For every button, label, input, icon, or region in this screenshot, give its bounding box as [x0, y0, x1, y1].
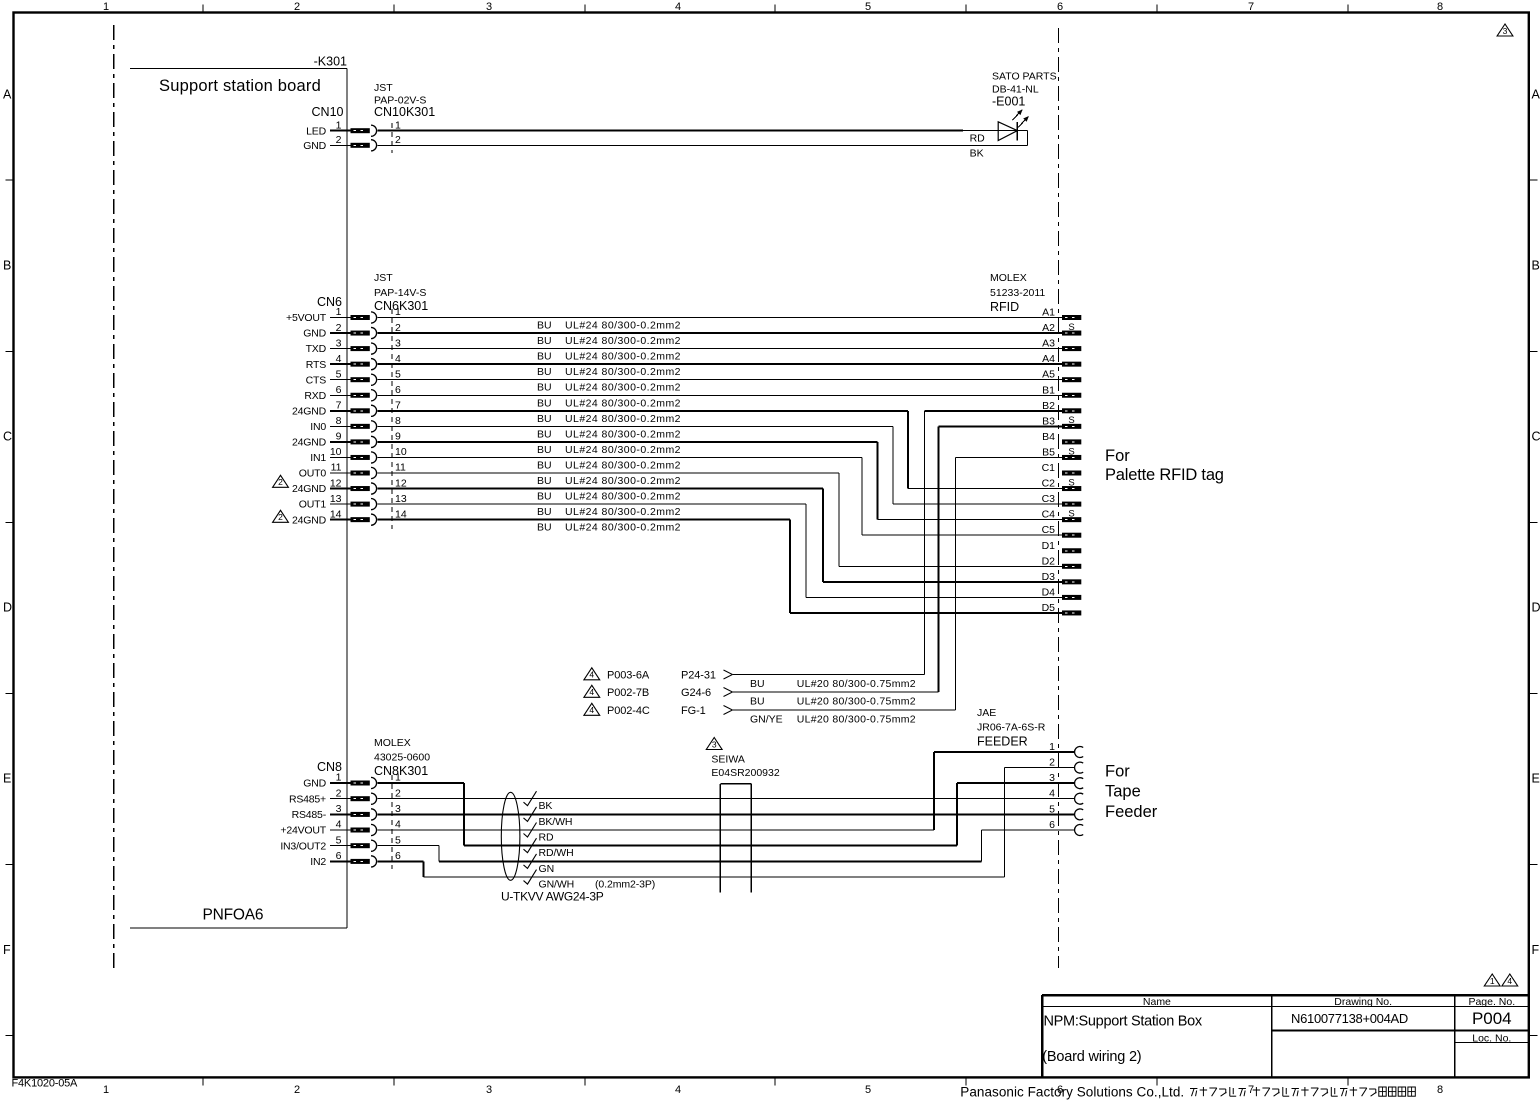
- svg-text:2: 2: [395, 322, 401, 334]
- svg-text:BU: BU: [750, 695, 765, 707]
- svg-text:3: 3: [395, 803, 401, 815]
- svg-text:A5: A5: [1042, 369, 1055, 381]
- svg-text:9: 9: [336, 431, 342, 443]
- svg-text:4: 4: [336, 819, 342, 831]
- svg-text:UL#24 80/300-0.2mm2: UL#24 80/300-0.2mm2: [565, 351, 681, 363]
- svg-text:OUT1: OUT1: [299, 499, 327, 511]
- svg-text:5: 5: [865, 1084, 871, 1096]
- svg-text:6: 6: [395, 850, 401, 862]
- svg-text:2: 2: [294, 1084, 300, 1096]
- svg-text:1: 1: [1490, 976, 1495, 986]
- svg-text:6: 6: [336, 850, 342, 862]
- svg-text:A3: A3: [1042, 338, 1055, 350]
- svg-text:2: 2: [278, 477, 283, 487]
- svg-text:RS485+: RS485+: [289, 793, 326, 805]
- svg-text:IN1: IN1: [310, 452, 326, 464]
- svg-text:A4: A4: [1042, 353, 1055, 365]
- svg-text:NPM:Support Station Box: NPM:Support Station Box: [1044, 1013, 1203, 1029]
- svg-text:BU: BU: [537, 413, 552, 425]
- svg-text:2: 2: [294, 1, 300, 13]
- svg-text:S: S: [1068, 477, 1074, 488]
- svg-text:MOLEX: MOLEX: [990, 272, 1027, 284]
- svg-text:UL#24 80/300-0.2mm2: UL#24 80/300-0.2mm2: [565, 366, 681, 378]
- svg-text:4: 4: [675, 1, 681, 13]
- svg-text:6: 6: [1057, 1, 1063, 13]
- svg-text:JST: JST: [374, 82, 393, 94]
- svg-text:F4K1020-05A: F4K1020-05A: [12, 1078, 79, 1090]
- svg-text:S: S: [1068, 415, 1074, 426]
- svg-text:CN10: CN10: [312, 105, 344, 119]
- svg-text:13: 13: [395, 493, 407, 505]
- svg-text:12: 12: [330, 477, 342, 489]
- svg-text:Page. No.: Page. No.: [1468, 996, 1515, 1008]
- svg-text:CN6K301: CN6K301: [374, 299, 428, 313]
- svg-text:G24-6: G24-6: [681, 687, 711, 699]
- svg-text:8: 8: [336, 415, 342, 427]
- svg-text:UL#24 80/300-0.2mm2: UL#24 80/300-0.2mm2: [565, 506, 681, 518]
- svg-text:GND: GND: [303, 328, 326, 340]
- svg-text:D3: D3: [1042, 571, 1056, 583]
- svg-text:B5: B5: [1042, 446, 1055, 458]
- svg-text:2: 2: [336, 787, 342, 799]
- svg-text:2: 2: [278, 512, 283, 522]
- svg-text:SATO PARTS: SATO PARTS: [992, 71, 1057, 83]
- svg-text:1: 1: [1049, 741, 1055, 753]
- svg-text:BU: BU: [537, 366, 552, 378]
- svg-text:BK: BK: [970, 148, 984, 160]
- svg-text:A: A: [1532, 88, 1540, 102]
- svg-text:Feeder: Feeder: [1105, 803, 1158, 821]
- svg-text:RS485-: RS485-: [292, 809, 327, 821]
- svg-text:C: C: [3, 430, 12, 444]
- svg-text:13: 13: [330, 493, 342, 505]
- svg-text:C5: C5: [1042, 524, 1056, 536]
- svg-text:+5VOUT: +5VOUT: [286, 312, 327, 324]
- svg-text:BU: BU: [537, 506, 552, 518]
- svg-text:GND: GND: [303, 778, 326, 790]
- svg-text:2: 2: [1049, 757, 1055, 769]
- svg-text:BU: BU: [537, 475, 552, 487]
- svg-text:D: D: [1532, 601, 1540, 615]
- svg-text:RD/WH: RD/WH: [539, 847, 574, 859]
- svg-text:7: 7: [395, 400, 401, 412]
- svg-text:8: 8: [1437, 1, 1443, 13]
- svg-text:P24-31: P24-31: [681, 670, 716, 682]
- svg-text:UL#24 80/300-0.2mm2: UL#24 80/300-0.2mm2: [565, 335, 681, 347]
- svg-text:BU: BU: [537, 459, 552, 471]
- svg-text:3: 3: [486, 1, 492, 13]
- svg-text:-E001: -E001: [992, 95, 1025, 109]
- svg-text:E: E: [3, 772, 11, 786]
- svg-text:5: 5: [865, 1, 871, 13]
- svg-text:P002-4C: P002-4C: [607, 705, 650, 717]
- svg-text:4: 4: [395, 353, 401, 365]
- svg-text:D5: D5: [1042, 602, 1056, 614]
- svg-text:2: 2: [336, 134, 342, 146]
- svg-text:4: 4: [589, 670, 594, 680]
- svg-text:JST: JST: [374, 272, 393, 284]
- svg-text:6: 6: [395, 384, 401, 396]
- svg-text:B1: B1: [1042, 384, 1055, 396]
- svg-text:4: 4: [395, 819, 401, 831]
- svg-text:RXD: RXD: [304, 390, 326, 402]
- svg-text:Panasonic Factory Solutions Co: Panasonic Factory Solutions Co.,Ltd.: [960, 1085, 1184, 1100]
- svg-text:14: 14: [330, 508, 342, 520]
- svg-text:JR06-7A-6S-R: JR06-7A-6S-R: [977, 722, 1046, 734]
- svg-text:7: 7: [1248, 1, 1254, 13]
- svg-text:For: For: [1105, 447, 1130, 465]
- svg-text:RD: RD: [970, 132, 986, 144]
- svg-text:UL#20 80/300-0.75mm2: UL#20 80/300-0.75mm2: [797, 678, 916, 690]
- svg-text:C3: C3: [1042, 493, 1056, 505]
- svg-text:D: D: [3, 601, 12, 615]
- svg-text:C1: C1: [1042, 462, 1056, 474]
- svg-text:BK: BK: [539, 800, 553, 812]
- svg-text:2: 2: [395, 134, 401, 146]
- svg-text:24GND: 24GND: [292, 483, 327, 495]
- svg-text:6: 6: [1049, 819, 1055, 831]
- svg-text:IN2: IN2: [310, 856, 326, 868]
- svg-text:11: 11: [331, 462, 342, 474]
- svg-text:2: 2: [395, 787, 401, 799]
- svg-text:B: B: [3, 259, 11, 273]
- svg-text:GND: GND: [303, 140, 326, 152]
- svg-text:C: C: [1532, 430, 1540, 444]
- svg-text:5: 5: [336, 834, 342, 846]
- svg-text:UL#24 80/300-0.2mm2: UL#24 80/300-0.2mm2: [565, 491, 681, 503]
- svg-text:10: 10: [395, 446, 407, 458]
- svg-text:3: 3: [1049, 772, 1055, 784]
- svg-text:24GND: 24GND: [292, 405, 327, 417]
- svg-text:P004: P004: [1472, 1009, 1512, 1028]
- svg-text:MOLEX: MOLEX: [374, 737, 411, 749]
- svg-text:RFID: RFID: [990, 300, 1019, 314]
- svg-text:5: 5: [336, 368, 342, 380]
- svg-text:UL#24 80/300-0.2mm2: UL#24 80/300-0.2mm2: [565, 397, 681, 409]
- svg-text:E04SR200932: E04SR200932: [711, 767, 779, 779]
- svg-text:7: 7: [336, 400, 342, 412]
- svg-text:UL#24 80/300-0.2mm2: UL#24 80/300-0.2mm2: [565, 382, 681, 394]
- svg-text:JAE: JAE: [977, 707, 996, 719]
- svg-text:BU: BU: [537, 335, 552, 347]
- svg-text:(Board wiring 2): (Board wiring 2): [1042, 1049, 1141, 1065]
- svg-text:1: 1: [336, 306, 342, 318]
- svg-text:U-TKVV AWG24-3P: U-TKVV AWG24-3P: [501, 890, 604, 904]
- svg-text:P002-7B: P002-7B: [607, 687, 649, 699]
- svg-text:UL#24 80/300-0.2mm2: UL#24 80/300-0.2mm2: [565, 413, 681, 425]
- svg-text:C2: C2: [1042, 478, 1056, 490]
- svg-text:Drawing No.: Drawing No.: [1334, 996, 1392, 1008]
- svg-text:PAP-14V-S: PAP-14V-S: [374, 287, 426, 299]
- svg-text:D4: D4: [1042, 586, 1056, 598]
- svg-text:BU: BU: [537, 522, 552, 534]
- svg-text:1: 1: [395, 306, 401, 318]
- svg-text:9: 9: [395, 431, 401, 443]
- svg-text:3: 3: [486, 1084, 492, 1096]
- svg-text:4: 4: [589, 687, 594, 697]
- svg-text:IN0: IN0: [310, 421, 326, 433]
- svg-text:UL#24 80/300-0.2mm2: UL#24 80/300-0.2mm2: [565, 320, 681, 332]
- svg-text:B4: B4: [1042, 431, 1055, 443]
- svg-text:GN: GN: [539, 863, 555, 875]
- svg-text:UL#24 80/300-0.2mm2: UL#24 80/300-0.2mm2: [565, 522, 681, 534]
- svg-text:S: S: [1068, 322, 1074, 333]
- svg-text:F: F: [1532, 943, 1540, 957]
- svg-text:RTS: RTS: [306, 359, 326, 371]
- svg-text:24GND: 24GND: [292, 437, 327, 449]
- svg-text:Support station board: Support station board: [159, 77, 321, 95]
- svg-text:CN10K301: CN10K301: [374, 105, 435, 119]
- svg-text:D2: D2: [1042, 555, 1056, 567]
- svg-text:12: 12: [395, 477, 407, 489]
- svg-text:UL#24 80/300-0.2mm2: UL#24 80/300-0.2mm2: [565, 428, 681, 440]
- svg-text:BU: BU: [537, 491, 552, 503]
- svg-text:5: 5: [1049, 803, 1055, 815]
- svg-text:F: F: [3, 943, 11, 957]
- svg-text:P003-6A: P003-6A: [607, 670, 650, 682]
- svg-text:8: 8: [1437, 1084, 1443, 1096]
- svg-text:51233-2011: 51233-2011: [990, 287, 1045, 299]
- svg-text:BU: BU: [537, 320, 552, 332]
- svg-text:3: 3: [336, 337, 342, 349]
- svg-text:OUT0: OUT0: [299, 468, 327, 480]
- svg-text:SEIWA: SEIWA: [711, 754, 744, 766]
- svg-text:BU: BU: [537, 382, 552, 394]
- svg-text:3: 3: [712, 739, 717, 749]
- svg-text:14: 14: [395, 508, 407, 520]
- svg-text:B: B: [1532, 259, 1540, 273]
- svg-text:5: 5: [395, 368, 401, 380]
- svg-text:BU: BU: [537, 428, 552, 440]
- svg-text:+24VOUT: +24VOUT: [280, 825, 326, 837]
- svg-text:-K301: -K301: [314, 55, 347, 69]
- svg-text:S: S: [1068, 508, 1074, 519]
- svg-text:3: 3: [1503, 26, 1508, 36]
- svg-text:UL#20 80/300-0.75mm2: UL#20 80/300-0.75mm2: [797, 695, 916, 707]
- svg-text:E: E: [1532, 772, 1540, 786]
- svg-text:TXD: TXD: [306, 343, 327, 355]
- svg-text:1: 1: [103, 1, 109, 13]
- svg-text:4: 4: [675, 1084, 681, 1096]
- svg-text:FG-1: FG-1: [681, 705, 706, 717]
- svg-text:A: A: [3, 88, 12, 102]
- svg-text:For: For: [1105, 763, 1130, 781]
- svg-text:(0.2mm2-3P): (0.2mm2-3P): [595, 879, 655, 891]
- svg-text:N610077138+004AD: N610077138+004AD: [1291, 1011, 1408, 1026]
- svg-text:BK/WH: BK/WH: [539, 816, 573, 828]
- svg-text:A1: A1: [1042, 307, 1055, 319]
- svg-text:2: 2: [336, 322, 342, 334]
- svg-text:4: 4: [1507, 976, 1512, 986]
- svg-text:4: 4: [589, 705, 594, 715]
- svg-text:11: 11: [395, 462, 406, 474]
- svg-text:C4: C4: [1042, 509, 1056, 521]
- svg-text:1: 1: [395, 119, 401, 131]
- svg-text:BU: BU: [537, 444, 552, 456]
- svg-text:RD: RD: [539, 832, 554, 844]
- svg-text:UL#24 80/300-0.2mm2: UL#24 80/300-0.2mm2: [565, 444, 681, 456]
- svg-text:UL#24 80/300-0.2mm2: UL#24 80/300-0.2mm2: [565, 475, 681, 487]
- svg-text:1: 1: [336, 119, 342, 131]
- svg-text:8: 8: [395, 415, 401, 427]
- svg-text:PNFOA6: PNFOA6: [203, 907, 264, 924]
- svg-text:CTS: CTS: [306, 374, 327, 386]
- svg-text:IN3/OUT2: IN3/OUT2: [280, 840, 326, 852]
- svg-text:Tape: Tape: [1105, 783, 1141, 801]
- svg-text:1: 1: [395, 772, 401, 784]
- svg-text:CN8K301: CN8K301: [374, 764, 428, 778]
- svg-text:3: 3: [395, 337, 401, 349]
- svg-text:UL#20 80/300-0.75mm2: UL#20 80/300-0.75mm2: [797, 713, 916, 725]
- svg-text:4: 4: [1049, 788, 1055, 800]
- svg-text:BU: BU: [750, 678, 765, 690]
- svg-text:S: S: [1068, 446, 1074, 457]
- svg-text:GN/YE: GN/YE: [750, 713, 783, 725]
- svg-text:Palette RFID tag: Palette RFID tag: [1105, 466, 1224, 484]
- svg-text:10: 10: [330, 446, 342, 458]
- svg-text:6: 6: [336, 384, 342, 396]
- svg-text:UL#24 80/300-0.2mm2: UL#24 80/300-0.2mm2: [565, 459, 681, 471]
- svg-text:Loc. No.: Loc. No.: [1472, 1032, 1511, 1044]
- svg-text:3: 3: [336, 803, 342, 815]
- svg-text:FEEDER: FEEDER: [977, 735, 1028, 749]
- svg-text:1: 1: [336, 772, 342, 784]
- svg-text:Name: Name: [1143, 996, 1171, 1008]
- svg-text:4: 4: [336, 353, 342, 365]
- svg-text:D1: D1: [1042, 540, 1056, 552]
- svg-text:43025-0600: 43025-0600: [374, 752, 430, 764]
- svg-text:A2: A2: [1042, 322, 1055, 334]
- svg-text:24GND: 24GND: [292, 514, 327, 526]
- svg-text:1: 1: [103, 1084, 109, 1096]
- svg-text:BU: BU: [537, 397, 552, 409]
- svg-text:BU: BU: [537, 351, 552, 363]
- svg-text:5: 5: [395, 834, 401, 846]
- svg-text:LED: LED: [306, 125, 326, 137]
